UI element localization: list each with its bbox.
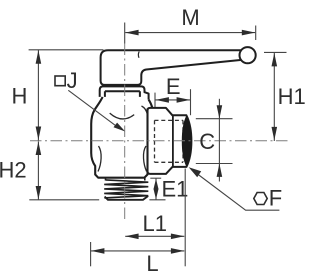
svg-text:E: E [166, 74, 181, 99]
svg-text:H: H [11, 84, 27, 109]
svg-text:H2: H2 [0, 157, 27, 182]
leader J [68, 90, 119, 128]
svg-text:M: M [181, 5, 199, 30]
body saddle arc [110, 113, 135, 119]
hidden hex dashed lines [155, 120, 184, 162]
vertical centerline [124, 44, 126, 223]
hex end-face crescent [182, 115, 192, 166]
horizontal centerline [30, 140, 291, 142]
dimension H2 [29, 141, 99, 199]
label J with square symbol [55, 76, 65, 86]
handle parting mark [137, 52, 140, 58]
dimension L1 [125, 235, 184, 237]
svg-text:J: J [67, 68, 78, 93]
dimension E [155, 89, 191, 115]
dimension H [29, 50, 104, 141]
svg-text:H1: H1 [278, 84, 306, 109]
dimension M [125, 23, 256, 44]
port collar and hex nut outline [148, 108, 192, 174]
hex facet line [172, 115, 174, 167]
svg-text:L1: L1 [142, 211, 166, 236]
handle lever outline [101, 50, 242, 85]
thread shank [106, 178, 145, 181]
dimension C [196, 99, 233, 182]
svg-text:E1: E1 [162, 177, 189, 202]
svg-text:F: F [269, 186, 282, 211]
dimension H1 [264, 52, 287, 141]
svg-text:C: C [199, 129, 215, 154]
body lower-left arc [98, 146, 101, 172]
dimension L [91, 169, 186, 267]
dimension E1 [149, 178, 165, 200]
label F with hexagon symbol [254, 193, 267, 205]
body lower-right arc [143, 146, 146, 172]
body inner shoulder line [142, 106, 148, 114]
valve body outline [91, 97, 152, 178]
male thread [104, 180, 148, 198]
leader F [192, 170, 280, 211]
handle ball end [240, 47, 256, 63]
gland ring [100, 86, 149, 99]
svg-text:L: L [146, 251, 158, 273]
